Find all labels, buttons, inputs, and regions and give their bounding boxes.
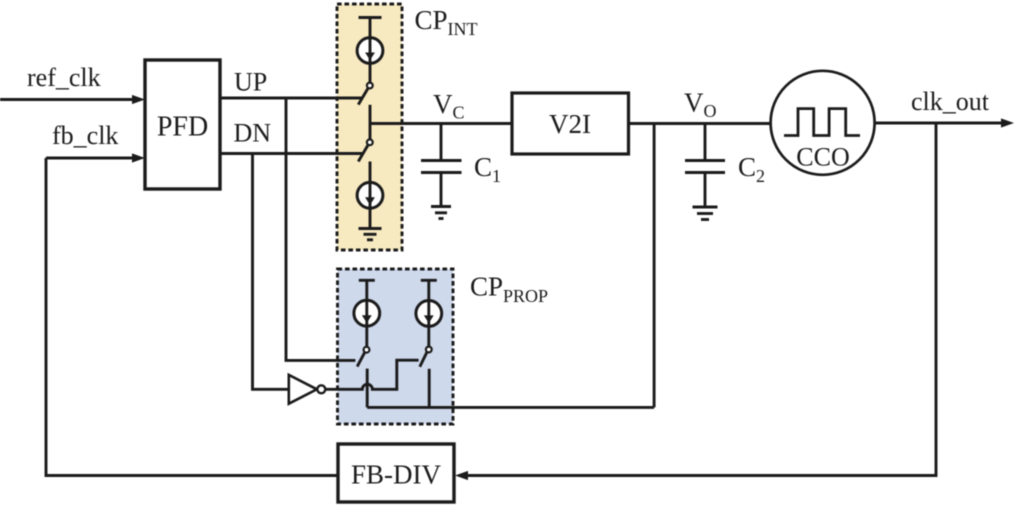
svg-text:C2: C2: [738, 152, 765, 186]
svg-text:UP: UP: [234, 68, 267, 97]
svg-text:fb_clk: fb_clk: [52, 121, 118, 150]
svg-text:VC: VC: [433, 89, 465, 123]
svg-text:V2I: V2I: [549, 109, 591, 139]
svg-text:DN: DN: [234, 119, 272, 148]
svg-text:CPPROP: CPPROP: [470, 272, 548, 307]
svg-text:CPINT: CPINT: [415, 5, 478, 39]
svg-text:FB-DIV: FB-DIV: [351, 460, 442, 490]
svg-text:C1: C1: [474, 152, 501, 186]
svg-text:ref_clk: ref_clk: [27, 63, 101, 92]
svg-text:VO: VO: [684, 88, 717, 122]
svg-text:CCO: CCO: [796, 143, 849, 172]
svg-text:clk_out: clk_out: [911, 87, 990, 116]
svg-text:PFD: PFD: [157, 112, 208, 143]
